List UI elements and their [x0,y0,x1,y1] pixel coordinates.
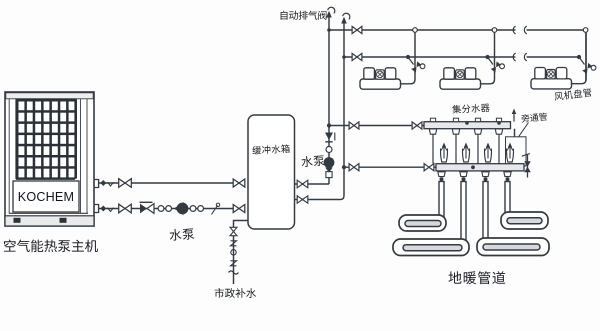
wire: manifold return branch [344,166,436,168]
label: buffer tank [252,144,290,155]
label: floor heating pipes [449,271,506,284]
return bar outlet collar x507.5 [504,172,511,177]
valve on supply main [352,26,362,33]
wire: unit top pipe to tank [99,182,233,184]
fan coil unit 2 [440,68,481,89]
floor coil loop right-lower [477,238,549,256]
pump P1 (circulation pump) [174,202,188,215]
unit outlet stub bottom [94,205,99,213]
heat pump grille [16,99,77,180]
supply bar outlet collar x499 [495,129,502,134]
flex joint marks top [100,180,113,186]
junction dots on supply bar [465,121,469,125]
auto air vent on return riser [341,17,347,24]
wire: fan coil return main [344,56,515,58]
vent nub on supply bar x456 [453,118,458,121]
supply bar outlet collar x456 [452,129,459,134]
makeup valve [230,227,237,235]
junction dot supply main start [327,28,331,32]
junction dot return main start [342,55,346,59]
valve on manifold return branch [349,164,359,171]
label: automatic air vent valve [281,11,327,20]
supply bar outlet collar x433 [429,129,436,134]
thermostatic head x488 [485,149,492,163]
wire: drop to fan coil 1 [401,30,416,84]
KOCHEM brand panel [13,181,79,212]
fan coil unit 3 [531,68,572,89]
return bar outlet collar x463.5 [460,172,467,177]
drain/sensor tap [212,206,218,215]
supply bar outlet collar x478 [474,129,481,134]
balancing valve at return bar end [527,155,529,178]
return bar outlet collar x485.5 [482,172,489,177]
makeup check symbol 2 [231,261,237,266]
floor coil loop left-lower [393,239,469,256]
wire: coil feed pipe x485.5 [483,182,488,242]
label: water pump (riser) [301,155,325,167]
label: municipal makeup water [215,288,257,298]
bypass callout box [506,137,527,166]
junction circle at corner [583,28,588,33]
pipe break marks supply main [513,26,515,34]
wire: manifold supply branch [329,125,424,127]
manual vent at supply bar right end [513,113,515,122]
wire: unit bottom pipe to tank [99,208,233,210]
valve on manifold supply branch [349,122,359,129]
gate valve top-left [119,179,132,188]
valve tank right bottom [297,196,308,203]
makeup pressure reducer [231,250,236,255]
motorized two-way valve 2 [491,60,506,75]
wire: makeup water line [234,221,249,285]
riser union circle [326,147,332,153]
unit outlet stub top [94,180,99,188]
label: fan coil unit [554,88,592,101]
branch dot on return main 1 [406,55,410,59]
return manifold bar [436,164,524,171]
wire: coil feed pipe x463.5 [461,182,466,243]
union fittings [190,206,196,212]
label: bypass pipe [521,112,547,122]
valve on return main [352,53,362,60]
label: air-source heat pump unit [4,240,98,253]
motorized two-way valve 3 [582,61,597,76]
gate valve before tank bottom [233,205,245,213]
pump P2 on riser [324,157,335,172]
gate valve bottom-left [119,204,132,213]
junction circle on supply main 1 [413,28,418,33]
wire: tank top-right to pump riser [295,183,330,185]
union fittings [158,206,164,212]
pipe break marks return main [513,53,515,61]
valve tank right top [297,180,308,188]
corner down at right end [583,30,586,81]
vent nub on supply bar x433 [430,118,435,121]
makeup flex tilde [229,271,239,274]
makeup check symbol 1 [231,241,237,246]
bypass pipe [514,129,516,164]
label: water pump (bottom) [169,228,194,241]
vent nub on supply bar x478 [475,118,480,121]
thermostatic head x510 [507,149,514,163]
supply manifold bar [424,122,511,129]
vent nub on supply bar x499 [496,118,501,121]
wire: coil feed pipe x507.5 [505,182,510,216]
gate valve before tank top [233,179,245,187]
thermostatic head x466 [463,149,470,163]
auto air vent on supply riser [326,11,332,18]
motorized two-way valve 1 [411,60,426,75]
heat pump unit outer cabinet [5,92,94,226]
branch dot on return main 3 [577,55,581,59]
flex joint marks bottom [100,206,113,212]
wire: pump riser (supply) [328,17,330,184]
thermostatic head x444 [441,149,448,163]
buffer tank [248,115,295,229]
fan coil unit 1 [360,68,401,89]
svg-text:KOCHEM: KOCHEM [18,190,74,204]
wire: drop to fan coil 2 [481,30,495,84]
label: manifold [452,103,490,114]
wire: coil feed pipe x441.5 [439,182,444,219]
return bar outlet collar x441.5 [438,172,445,177]
valve at return manifold inlet [424,164,434,171]
junction circle on supply main 2 [492,28,497,33]
floor coil loop right-upper [501,212,548,229]
check valve bottom pipe [140,202,155,213]
branch dot on return main 2 [485,55,489,59]
riser check valve [325,133,335,142]
valve at supply manifold inlet [412,122,422,129]
wire: tank bottom-right to return riser [295,23,345,200]
wire: drop to fan coil 3 [572,33,587,84]
floor coil loop left-upper [399,215,446,231]
riser union square [326,172,332,178]
wire: fan coil supply main (top) [329,29,515,31]
